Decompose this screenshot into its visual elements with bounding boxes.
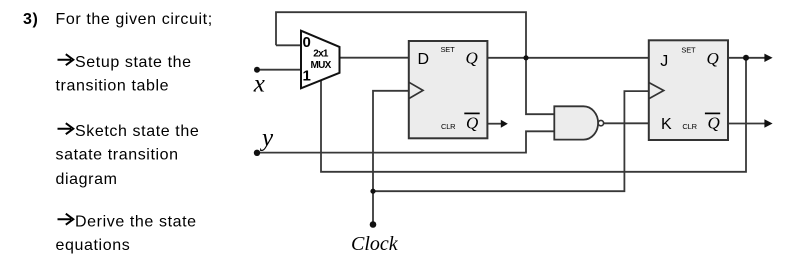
svg-text:transition table: transition table [56, 78, 170, 95]
svg-text:equations: equations [56, 237, 131, 254]
svg-text:For the given circuit;: For the given circuit; [56, 11, 213, 28]
svg-text:satate transition: satate transition [56, 147, 179, 164]
svg-text:D: D [418, 51, 430, 68]
svg-text:CLR: CLR [441, 122, 456, 131]
svg-text:SET: SET [681, 46, 696, 55]
svg-text:y: y [259, 124, 274, 151]
svg-text:MUX: MUX [310, 60, 331, 71]
svg-text:Q: Q [707, 49, 719, 68]
svg-text:x: x [253, 70, 265, 97]
svg-text:Q: Q [466, 49, 478, 68]
svg-text:J: J [660, 53, 668, 70]
svg-text:Clock: Clock [351, 233, 399, 255]
svg-text:Sketch state the: Sketch state the [75, 123, 199, 140]
svg-text:Q: Q [708, 114, 720, 133]
svg-text:SET: SET [441, 45, 456, 54]
svg-text:3): 3) [23, 11, 38, 28]
svg-text:K: K [661, 116, 672, 133]
svg-text:0: 0 [303, 34, 311, 51]
svg-text:Q: Q [466, 114, 478, 133]
svg-text:CLR: CLR [682, 122, 697, 131]
svg-text:2x1: 2x1 [313, 49, 329, 60]
svg-text:Setup state the: Setup state the [75, 54, 192, 71]
svg-text:Derive the state: Derive the state [75, 214, 197, 231]
svg-text:diagram: diagram [56, 171, 118, 188]
